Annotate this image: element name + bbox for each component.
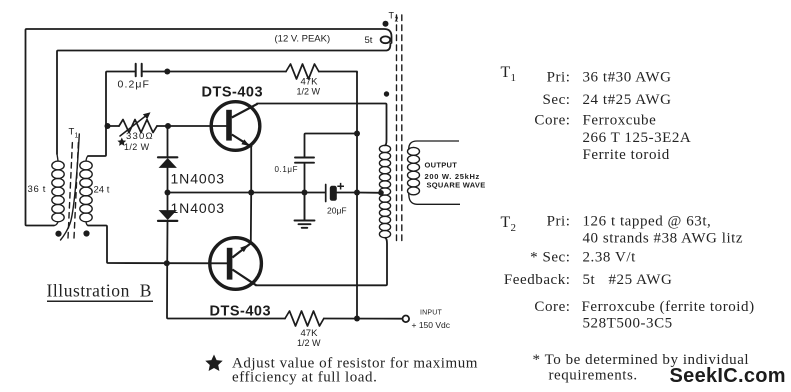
- junction dot: diode center / emitter row: [165, 190, 171, 196]
- transformer T2 core (dashed): [397, 15, 402, 243]
- phase dot: T2 5t feedback: [383, 21, 389, 27]
- capacitor C1 0.2uF plates: [136, 64, 142, 77]
- transformer T1 core (dashed): [68, 140, 79, 238]
- svg-text:DTS-403: DTS-403: [202, 85, 264, 101]
- svg-text:2: 2: [511, 222, 517, 234]
- capacitor C3 20uF positive plate: [330, 186, 337, 201]
- wire: outer feedback loop (T2 5t top to T1 36t bottom): [26, 29, 392, 226]
- svg-text:1N4003: 1N4003: [171, 171, 225, 187]
- diode D2 1N4003 cathode bar: [158, 220, 177, 222]
- diode D2 1N4003 body: [159, 210, 177, 220]
- transistor Q2 DTS-403: [210, 238, 262, 290]
- junction dot: Q2 base node: [164, 260, 170, 266]
- junction dot: rail / 0.1uF branch: [354, 131, 360, 137]
- svg-text:24 t#25 AWG: 24 t#25 AWG: [583, 92, 672, 108]
- transformer T1 primary winding 36t: [52, 154, 64, 226]
- wire: Q1 base node down to diode D1: [167, 126, 169, 157]
- junction dot: rail / 20uF / center tap: [354, 190, 360, 196]
- star: footnote marker: [205, 355, 222, 372]
- wire: rail junction to T2 primary center tap: [357, 192, 381, 194]
- wire: Q1 base lead: [168, 125, 226, 127]
- resistor R2 adjustment arrow: [120, 115, 148, 137]
- svg-text:1N4003: 1N4003: [171, 200, 225, 216]
- svg-text:efficiency at full load.: efficiency at full load.: [232, 370, 377, 386]
- terminal: INPUT +150Vdc: [403, 316, 410, 323]
- wire: Q1 collector to T2 primary top: [257, 104, 387, 146]
- junction dot: 0.2uF/47K/Q1-base-column: [164, 69, 170, 75]
- transformer T1 secondary winding 24t: [80, 156, 92, 226]
- svg-text:T: T: [501, 64, 511, 81]
- wire: center junction to diode D2: [167, 193, 169, 210]
- svg-text:Feedback:: Feedback:: [504, 272, 571, 288]
- wire: 0.1uF bottom to emitter/ground row: [304, 164, 306, 193]
- resistor R2 arrowhead: [143, 112, 151, 119]
- transformer T2 primary winding 126t: [379, 145, 390, 237]
- diode D1 1N4003 cathode bar: [158, 156, 177, 158]
- wire: +150V rail vertical x=357: [356, 72, 358, 319]
- svg-text:0.1μF: 0.1μF: [275, 165, 299, 174]
- svg-text:(12 V. PEAK): (12 V. PEAK): [275, 34, 331, 45]
- capacitor C3 plus sign: [337, 183, 344, 190]
- svg-text:* Sec:: * Sec:: [530, 250, 570, 266]
- svg-text:#25 AWG: #25 AWG: [609, 272, 673, 288]
- wire: 330 ohm right lead to Q1 base junction: [157, 125, 168, 127]
- wire: 47K right end to +150V rail: [319, 72, 357, 73]
- capacitor C2 0.1uF plates: [295, 158, 314, 163]
- svg-text:0.2μF: 0.2μF: [118, 79, 151, 91]
- svg-text:OUTPUT: OUTPUT: [425, 161, 458, 170]
- wire: T1 24t bottom to Q2 base junction and Q2 base lead: [88, 226, 227, 264]
- ground symbol: [295, 193, 315, 228]
- resistor R3 47K (bottom) zigzag: [285, 311, 324, 326]
- svg-text:requirements.: requirements.: [549, 368, 638, 384]
- junction dot: 330 left / 24t top: [105, 123, 111, 129]
- svg-text:T: T: [501, 214, 511, 231]
- resistor R1 47K (top) zigzag: [286, 64, 319, 79]
- svg-text:36 t: 36 t: [28, 184, 47, 195]
- wire: Q1/Q2 emitter vertical: [250, 148, 252, 244]
- svg-text:Ferroxcube (ferrite toroid): Ferroxcube (ferrite toroid): [582, 299, 755, 315]
- svg-text:SeekIC.com: SeekIC.com: [670, 365, 786, 387]
- transistor Q1 DTS-403: [211, 102, 260, 151]
- transformer T1 adjustment diagonal: [61, 134, 80, 240]
- wire: bottom 47K to rail junction to INPUT terminal: [324, 318, 403, 320]
- wire: D2 cathode down to Q2 base node, down to bottom 47K row: [167, 221, 285, 319]
- svg-text:528T500-3C5: 528T500-3C5: [583, 316, 673, 332]
- svg-text:Illustration B: Illustration B: [47, 281, 152, 301]
- svg-text:Core:: Core:: [534, 113, 570, 129]
- svg-text:24 t: 24 t: [94, 185, 110, 196]
- svg-text:Pri:: Pri:: [547, 70, 571, 86]
- diode D1 1N4003 body: [159, 158, 177, 168]
- wire: emitter/ground row (diode junction to 20uF): [168, 192, 325, 194]
- svg-text:1/2 W: 1/2 W: [297, 338, 321, 348]
- wire: Q2 collector to T2 primary bottom: [256, 238, 387, 285]
- junction dot: 0.1uF / ground: [302, 190, 308, 196]
- wire: inner feedback loop (T1 36t top to T2 5t bottom): [57, 44, 390, 155]
- svg-text:20μF: 20μF: [327, 206, 347, 216]
- svg-text:36 t#30 AWG: 36 t#30 AWG: [583, 70, 672, 86]
- svg-text:INPUT: INPUT: [420, 310, 443, 317]
- svg-text:126 t tapped @ 63t,: 126 t tapped @ 63t,: [583, 214, 712, 230]
- svg-text:DTS-403: DTS-403: [210, 304, 272, 320]
- svg-text:1/2 W: 1/2 W: [297, 87, 321, 97]
- svg-text:2.38 V/t: 2.38 V/t: [583, 250, 637, 266]
- wire: 0.2uF right to junction to 47K resistor: [143, 71, 286, 73]
- svg-text:+ 150 Vdc: + 150 Vdc: [412, 320, 451, 330]
- svg-text:1: 1: [75, 133, 79, 140]
- svg-text:Pri:: Pri:: [547, 214, 571, 230]
- junction dot: rail / bottom 47K / INPUT: [354, 316, 360, 322]
- wire: 330 ohm left lead from junction: [108, 125, 120, 127]
- svg-text:Ferroxcube: Ferroxcube: [583, 113, 657, 129]
- junction dot: emitter tie point: [248, 190, 254, 196]
- transformer T2 feedback winding 5t (single loop): [381, 36, 391, 43]
- svg-text:Sec:: Sec:: [542, 92, 570, 108]
- svg-text:Ferrite toroid: Ferrite toroid: [583, 147, 670, 163]
- svg-text:5t: 5t: [365, 35, 373, 46]
- star: R2 adjust marker: [117, 138, 126, 146]
- svg-text:Core:: Core:: [534, 299, 570, 315]
- resistor R2 330 ohm zigzag: [119, 120, 157, 133]
- svg-text:5t: 5t: [583, 272, 596, 288]
- svg-text:266 T 125-3E2A: 266 T 125-3E2A: [583, 130, 692, 146]
- svg-text:1/2 W: 1/2 W: [124, 142, 150, 152]
- wire: 0.1uF top branch to rail: [305, 134, 358, 157]
- phase dot: T2 primary: [384, 91, 389, 96]
- svg-text:2: 2: [395, 17, 399, 24]
- wire: 0.2uF row left vertical (24t top to 330 junction to cap): [88, 72, 135, 157]
- wire: D1 anode to center junction: [167, 168, 169, 193]
- svg-text:1: 1: [511, 72, 517, 84]
- junction dot: Q1 base node: [165, 123, 171, 129]
- phase dot: T1 24t: [83, 230, 89, 236]
- wire: 20uF positive side to rail junction: [337, 192, 357, 194]
- svg-text:SQUARE WAVE: SQUARE WAVE: [427, 181, 486, 190]
- phase dot: T1 36t: [55, 231, 61, 237]
- junction dot: T2 primary center tap: [378, 190, 384, 196]
- svg-text:40 strands #38 AWG litz: 40 strands #38 AWG litz: [583, 231, 744, 247]
- transformer T2 secondary winding: [408, 141, 461, 204]
- capacitor C3 20uF negative plate: [325, 185, 327, 202]
- svg-text:330Ω: 330Ω: [126, 131, 154, 142]
